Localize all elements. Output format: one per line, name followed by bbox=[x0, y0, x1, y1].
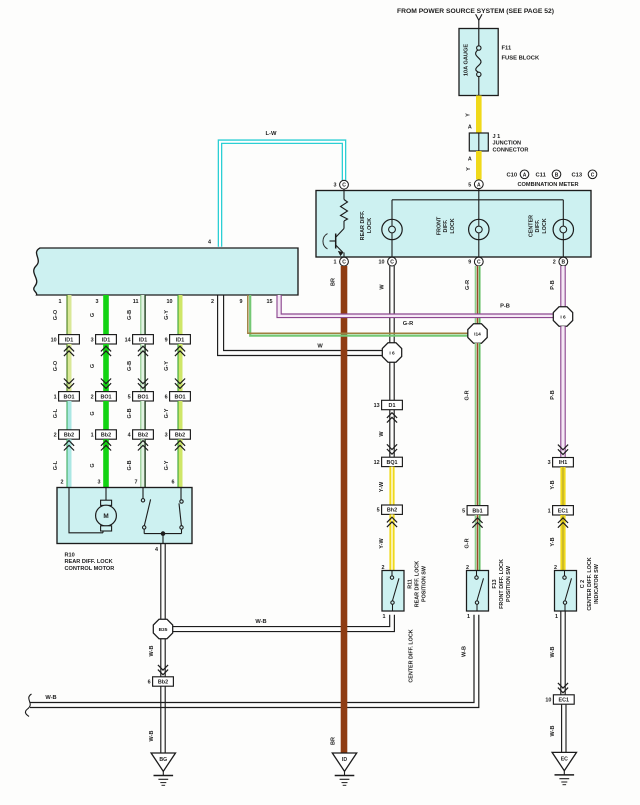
svg-text:1: 1 bbox=[91, 433, 94, 439]
connector D1 pin 13 bbox=[382, 400, 403, 409]
wire Y (J1 to combination meter pin 5) bbox=[476, 151, 482, 180]
svg-text:C: C bbox=[591, 172, 595, 178]
wire G (ID1 to BO1), column 2 bbox=[103, 344, 109, 392]
svg-text:A: A bbox=[468, 157, 472, 163]
splice B35 bbox=[153, 619, 172, 638]
connector arrows bbox=[558, 518, 568, 528]
svg-text:I 6: I 6 bbox=[560, 314, 566, 320]
connector arrows bbox=[138, 379, 148, 389]
svg-text:Bb2: Bb2 bbox=[158, 680, 168, 686]
wire G (big box pin to ID1), column 2 bbox=[103, 295, 109, 335]
svg-text:LOCK: LOCK bbox=[542, 218, 548, 233]
connector EC1 pin 1 bbox=[553, 506, 574, 515]
wire G-O (ID1 to BO1), column 1 bbox=[67, 344, 71, 392]
splice I6 (right) bbox=[553, 307, 572, 326]
svg-text:2: 2 bbox=[554, 565, 557, 571]
svg-text:3: 3 bbox=[98, 480, 101, 486]
connector BO1 pin 1 bbox=[59, 392, 80, 401]
svg-text:BQ1: BQ1 bbox=[386, 460, 397, 466]
svg-text:ID1: ID1 bbox=[139, 337, 147, 343]
svg-text:DIFF.: DIFF. bbox=[535, 219, 541, 232]
svg-text:11: 11 bbox=[133, 299, 139, 305]
svg-text:C: C bbox=[477, 260, 481, 266]
connector Bb2 pin 3 bbox=[170, 430, 191, 439]
connector arrows bbox=[175, 346, 185, 356]
big box (no-name control unit, broken left edge) bbox=[34, 248, 298, 295]
svg-text:ID1: ID1 bbox=[65, 337, 73, 343]
svg-text:Y: Y bbox=[466, 167, 472, 171]
svg-text:G-O: G-O bbox=[53, 360, 59, 371]
wire W-B (motor pin 4 to B35) bbox=[160, 544, 162, 620]
svg-text:ID1: ID1 bbox=[176, 337, 184, 343]
svg-text:POSITION SW: POSITION SW bbox=[506, 565, 512, 602]
F13 front diff lock position switch bbox=[467, 571, 489, 612]
C2 center diff lock indicator switch bbox=[555, 571, 577, 612]
connector arrows bbox=[158, 665, 168, 675]
svg-text:BR: BR bbox=[331, 737, 337, 745]
switch blade 1 bbox=[144, 499, 150, 525]
svg-text:1: 1 bbox=[383, 614, 386, 620]
svg-text:FROM POWER SOURCE SYSTEM (SEE: FROM POWER SOURCE SYSTEM (SEE PAGE 52) bbox=[397, 8, 554, 15]
svg-text:1: 1 bbox=[59, 299, 62, 305]
svg-text:1: 1 bbox=[555, 614, 558, 620]
svg-text:4: 4 bbox=[128, 433, 131, 439]
svg-text:Y-B: Y-B bbox=[550, 480, 556, 489]
svg-text:REAR DIFF. LOCK: REAR DIFF. LOCK bbox=[65, 559, 113, 565]
wire P-B (I6 to IH1) bbox=[561, 326, 564, 457]
svg-text:Bb2: Bb2 bbox=[175, 433, 185, 439]
svg-text:I 6: I 6 bbox=[389, 350, 395, 356]
splice I14 bbox=[468, 324, 487, 343]
connector arrows bbox=[387, 517, 397, 527]
svg-text:3: 3 bbox=[548, 460, 551, 466]
svg-text:CENTER DIFF. LOCK: CENTER DIFF. LOCK bbox=[587, 557, 593, 610]
connector BQ1 pin 12 bbox=[382, 457, 403, 466]
svg-text:EC1: EC1 bbox=[558, 508, 569, 514]
svg-text:INDICATOR SW: INDICATOR SW bbox=[594, 563, 600, 604]
svg-text:G-Y: G-Y bbox=[164, 361, 170, 371]
wire G-B (Bb2 to control motor), column 3 bbox=[141, 439, 145, 487]
svg-text:IH1: IH1 bbox=[559, 460, 567, 466]
wire G-Y (Bb2 to control motor), column 4 bbox=[178, 439, 182, 487]
svg-text:G-B: G-B bbox=[127, 310, 133, 320]
svg-text:5: 5 bbox=[377, 508, 380, 514]
svg-text:LOCK: LOCK bbox=[450, 218, 456, 233]
svg-text:ID1: ID1 bbox=[102, 337, 110, 343]
svg-text:C10: C10 bbox=[507, 173, 518, 179]
connector ID1 pin 10 bbox=[59, 335, 80, 344]
svg-text:G-O: G-O bbox=[53, 309, 59, 320]
internal wire to motor bbox=[69, 488, 103, 533]
transistor (inside meter) bbox=[343, 221, 345, 229]
svg-text:2: 2 bbox=[54, 433, 57, 439]
connector arrows bbox=[387, 444, 397, 454]
junction connector J1 box bbox=[469, 133, 488, 151]
switch blade 2 bbox=[179, 503, 181, 525]
wire W (D1 to BQ1) bbox=[389, 410, 391, 458]
wire BR (meter pin 1 to ground ID) bbox=[341, 266, 348, 753]
svg-text:R11: R11 bbox=[407, 579, 413, 589]
svg-text:ID: ID bbox=[342, 757, 347, 763]
svg-text:COMBINATION METER: COMBINATION METER bbox=[518, 182, 579, 188]
connector arrows bbox=[64, 441, 74, 451]
connector arrows bbox=[138, 441, 148, 451]
svg-text:D1: D1 bbox=[389, 403, 396, 409]
switch contact (pin 7) bbox=[142, 488, 144, 499]
svg-text:Bb2: Bb2 bbox=[64, 433, 74, 439]
svg-text:BO1: BO1 bbox=[137, 394, 148, 400]
svg-text:M: M bbox=[103, 513, 108, 520]
motor M bbox=[101, 500, 112, 505]
svg-text:CENTER DIFF. LOCK: CENTER DIFF. LOCK bbox=[409, 629, 415, 682]
svg-text:1: 1 bbox=[467, 614, 470, 620]
svg-text:2: 2 bbox=[91, 394, 94, 400]
connector Bb1 pin 5 bbox=[467, 506, 488, 515]
svg-text:P-B: P-B bbox=[550, 390, 556, 400]
connector arrows bbox=[558, 445, 568, 455]
svg-text:9: 9 bbox=[165, 337, 168, 343]
svg-text:3: 3 bbox=[91, 337, 94, 343]
svg-text:6: 6 bbox=[172, 480, 175, 486]
meter pin 10 circle C bbox=[388, 257, 397, 266]
svg-text:W-B: W-B bbox=[461, 646, 467, 657]
svg-text:Y-W: Y-W bbox=[379, 537, 385, 548]
svg-text:2: 2 bbox=[553, 260, 556, 266]
svg-text:B: B bbox=[555, 172, 559, 178]
svg-text:G: G bbox=[90, 463, 96, 467]
connector Bh2 pin 5 bbox=[382, 505, 403, 514]
svg-text:F11: F11 bbox=[502, 45, 512, 51]
svg-text:P-B: P-B bbox=[550, 280, 556, 290]
svg-text:6: 6 bbox=[165, 394, 168, 400]
svg-text:FRONT DIFF. LOCK: FRONT DIFF. LOCK bbox=[499, 559, 505, 609]
svg-text:W-B: W-B bbox=[149, 646, 155, 657]
svg-text:A: A bbox=[523, 172, 527, 178]
rear diff lock lamp bbox=[391, 200, 393, 220]
svg-text:BG: BG bbox=[159, 757, 167, 763]
connector Bb2 pin 4 bbox=[133, 430, 154, 439]
svg-text:10: 10 bbox=[379, 260, 385, 266]
wire Y-B (EC1 to C2 pin 2) bbox=[560, 515, 565, 571]
wire P-B (big box pin 15 to splice I6) bbox=[279, 295, 553, 316]
svg-text:W-B: W-B bbox=[149, 731, 155, 742]
svg-text:3: 3 bbox=[165, 433, 168, 439]
R11 rear diff lock position switch bbox=[382, 571, 404, 612]
svg-text:6: 6 bbox=[148, 680, 151, 686]
connector arrows bbox=[64, 346, 74, 356]
svg-text:G-Y: G-Y bbox=[164, 310, 170, 320]
svg-text:W-B: W-B bbox=[550, 726, 556, 737]
svg-text:W-B: W-B bbox=[550, 647, 556, 658]
connector EC1 pin 10 (ground run) bbox=[553, 695, 574, 704]
meter pin 1 circle C bbox=[340, 257, 349, 266]
svg-text:R10: R10 bbox=[65, 553, 75, 559]
svg-text:C: C bbox=[390, 260, 394, 266]
svg-text:15: 15 bbox=[267, 299, 273, 305]
connector arrows bbox=[138, 346, 148, 356]
svg-text:G-L: G-L bbox=[53, 460, 59, 470]
combination meter box bbox=[316, 191, 591, 258]
svg-text:J 1: J 1 bbox=[493, 134, 501, 140]
svg-text:I14: I14 bbox=[474, 331, 481, 337]
wire stub into fuse block bbox=[478, 20, 480, 28]
svg-text:JUNCTION: JUNCTION bbox=[493, 141, 522, 147]
svg-text:REAR DIFF. LOCK: REAR DIFF. LOCK bbox=[414, 561, 420, 608]
ground BG bbox=[151, 753, 175, 771]
connector arrows bbox=[558, 683, 568, 693]
connector arrows bbox=[101, 441, 111, 451]
connector ID1 pin 14 bbox=[133, 335, 154, 344]
wire L-W (meter pin 3 to big-box pin 4) bbox=[220, 142, 344, 247]
svg-text:G-Y: G-Y bbox=[164, 460, 170, 470]
svg-text:1: 1 bbox=[548, 508, 551, 514]
wire W-B (C2 pin 1 to EC1) bbox=[560, 612, 562, 695]
svg-text:C11: C11 bbox=[536, 173, 547, 179]
meter pin 3 circle C bbox=[340, 180, 349, 189]
svg-text:G: G bbox=[90, 313, 96, 317]
connector arrows bbox=[64, 379, 74, 389]
svg-text:Bb2: Bb2 bbox=[101, 433, 111, 439]
connector Bb2 pin 2 bbox=[59, 430, 80, 439]
svg-text:9: 9 bbox=[240, 299, 243, 305]
svg-text:CONNECTOR: CONNECTOR bbox=[493, 147, 529, 153]
svg-text:12: 12 bbox=[374, 460, 380, 466]
svg-text:EC: EC bbox=[561, 757, 568, 763]
svg-text:14: 14 bbox=[125, 337, 131, 343]
svg-text:1: 1 bbox=[334, 260, 337, 266]
R10 rear diff lock control motor box bbox=[57, 488, 192, 544]
lamp bus (inside meter) bbox=[392, 199, 563, 201]
svg-text:G-R: G-R bbox=[403, 321, 413, 327]
svg-text:DIFF.: DIFF. bbox=[443, 219, 449, 232]
svg-text:A: A bbox=[477, 182, 481, 188]
wire G-B (big box pin to ID1), column 3 bbox=[141, 295, 145, 335]
svg-text:Bb2: Bb2 bbox=[138, 433, 148, 439]
wire Y-B (IH1 to EC1) bbox=[560, 467, 565, 506]
connector arrows bbox=[101, 379, 111, 389]
svg-text:W: W bbox=[379, 284, 385, 290]
connector arrows bbox=[175, 379, 185, 389]
svg-text:A: A bbox=[468, 125, 472, 131]
wire G-O (big box pin to ID1), column 1 bbox=[67, 295, 71, 335]
svg-text:W: W bbox=[379, 431, 385, 437]
wire G-B (BO1 to Bb2), column 3 bbox=[141, 401, 145, 430]
svg-text:2: 2 bbox=[466, 565, 469, 571]
svg-text:W: W bbox=[317, 343, 323, 349]
svg-text:POSITION SW: POSITION SW bbox=[421, 565, 427, 602]
connector BO1 pin 6 bbox=[170, 392, 191, 401]
wire W (meter pin 10 to splice I6) bbox=[389, 266, 391, 343]
svg-text:G-R: G-R bbox=[465, 390, 471, 400]
svg-text:W-B: W-B bbox=[255, 619, 266, 625]
wire W (big box pin 2 to splice I6) bbox=[218, 295, 383, 356]
svg-text:G-B: G-B bbox=[127, 460, 133, 470]
connector IH1 pin 3 bbox=[553, 458, 574, 467]
svg-text:BR: BR bbox=[331, 278, 337, 286]
center diff lock lamp bbox=[562, 200, 564, 220]
ground EC bbox=[552, 752, 576, 770]
svg-text:BO1: BO1 bbox=[100, 394, 111, 400]
connector BO1 pin 5 bbox=[133, 392, 154, 401]
wire G-L (BO1 to Bb2), column 1 bbox=[67, 401, 71, 430]
svg-text:3: 3 bbox=[96, 299, 99, 305]
svg-text:G-B: G-B bbox=[127, 361, 133, 371]
svg-text:2: 2 bbox=[382, 565, 385, 571]
svg-text:BO1: BO1 bbox=[174, 394, 185, 400]
resistor (inside meter) bbox=[343, 189, 345, 199]
wire G-Y (ID1 to BO1), column 4 bbox=[178, 344, 182, 392]
svg-text:C: C bbox=[342, 183, 346, 189]
svg-text:C 2: C 2 bbox=[580, 580, 586, 588]
connector Bb2 pin 6 (ground run) bbox=[153, 677, 174, 686]
connector arrows bbox=[101, 346, 111, 356]
svg-text:C: C bbox=[342, 260, 346, 266]
svg-text:LOCK: LOCK bbox=[367, 218, 373, 233]
connector arrows bbox=[387, 413, 397, 423]
wire W-B (EC1 to ground EC) bbox=[561, 705, 563, 753]
svg-text:5: 5 bbox=[468, 182, 471, 188]
svg-text:EC1: EC1 bbox=[559, 698, 570, 704]
svg-text:G: G bbox=[90, 364, 96, 368]
svg-text:G-Y: G-Y bbox=[164, 408, 170, 418]
front diff lock lamp bbox=[469, 219, 489, 239]
svg-text:1: 1 bbox=[54, 394, 57, 400]
svg-text:7: 7 bbox=[135, 480, 138, 486]
svg-text:Y-B: Y-B bbox=[550, 537, 556, 546]
long wire W-B (left break to F13 pin 1) bbox=[30, 615, 474, 703]
internal bus to pin 4 bbox=[144, 533, 181, 535]
svg-text:9: 9 bbox=[468, 260, 471, 266]
wire G-Y (BO1 to Bb2), column 4 bbox=[178, 401, 182, 430]
wire break symbol bbox=[25, 694, 31, 717]
svg-text:Y-W: Y-W bbox=[379, 481, 385, 492]
connector arrows bbox=[472, 518, 482, 528]
svg-text:10: 10 bbox=[167, 299, 173, 305]
svg-text:G: G bbox=[90, 411, 96, 415]
arrow from power source bbox=[476, 14, 482, 20]
svg-text:4: 4 bbox=[208, 239, 211, 245]
wire Y-W (Bh2 to R11 pin 2) bbox=[389, 514, 394, 570]
svg-text:FRONT: FRONT bbox=[437, 216, 443, 235]
svg-text:REAR DIFF.: REAR DIFF. bbox=[360, 210, 366, 240]
wire G-Y (big box pin to ID1), column 4 bbox=[178, 295, 182, 335]
svg-text:FUSE BLOCK: FUSE BLOCK bbox=[502, 55, 540, 61]
wire G-L (Bb2 to control motor), column 1 bbox=[67, 439, 71, 487]
connector ID1 pin 9 bbox=[170, 335, 191, 344]
wire G-R (big box pin 9 to splice I14) bbox=[250, 295, 468, 336]
svg-text:Y: Y bbox=[466, 113, 472, 117]
wire P-B (meter pin 2 to splice I6) bbox=[561, 266, 564, 307]
svg-text:G-R: G-R bbox=[465, 538, 471, 548]
meter pin 5 circle A bbox=[474, 180, 483, 189]
connector BO1 pin 2 bbox=[96, 392, 117, 401]
splice I6 bbox=[382, 343, 401, 362]
wire G-R (Bb1 to F13 pin 2) bbox=[475, 515, 480, 571]
meter pin 2 circle B bbox=[559, 257, 568, 266]
svg-text:CONTROL MOTOR: CONTROL MOTOR bbox=[65, 566, 115, 572]
wire G (Bb2 to control motor), column 2 bbox=[103, 439, 109, 487]
svg-text:10: 10 bbox=[51, 337, 57, 343]
svg-text:W-B: W-B bbox=[45, 695, 56, 701]
meter pin 9 circle C bbox=[474, 257, 483, 266]
svg-text:F13: F13 bbox=[492, 579, 498, 588]
ground ID bbox=[332, 753, 356, 771]
fuse block F11 box bbox=[459, 29, 498, 96]
svg-text:G-B: G-B bbox=[127, 408, 133, 418]
svg-text:10: 10 bbox=[545, 698, 551, 704]
connector ID1 pin 3 bbox=[96, 335, 117, 344]
wire G-R (I14 to Bb1) bbox=[475, 343, 480, 506]
svg-text:G-R: G-R bbox=[465, 280, 471, 290]
svg-text:13: 13 bbox=[374, 403, 380, 409]
wire W-B (B35 to R11 pin 1) bbox=[173, 615, 390, 627]
wire Y-W (BQ1 to Bh2) bbox=[389, 467, 394, 505]
svg-text:10A GAUGE: 10A GAUGE bbox=[464, 44, 470, 76]
svg-text:G-L: G-L bbox=[53, 408, 59, 418]
svg-text:4: 4 bbox=[155, 547, 158, 553]
svg-text:2: 2 bbox=[61, 480, 64, 486]
svg-text:C13: C13 bbox=[572, 173, 583, 179]
svg-text:Bh2: Bh2 bbox=[387, 508, 397, 514]
svg-text:B35: B35 bbox=[159, 627, 168, 633]
svg-text:3: 3 bbox=[334, 183, 337, 189]
svg-text:B: B bbox=[561, 260, 565, 266]
wire W-B (B35 down to ground BG) bbox=[160, 639, 162, 753]
svg-text:CENTER: CENTER bbox=[529, 215, 535, 237]
wire G-B (ID1 to BO1), column 3 bbox=[141, 344, 145, 392]
svg-text:2: 2 bbox=[211, 299, 214, 305]
svg-text:Bb1: Bb1 bbox=[472, 508, 482, 514]
wire W (I6 to D1) bbox=[389, 362, 391, 400]
fuse element (10A GAUGE) bbox=[478, 29, 480, 46]
wire G (BO1 to Bb2), column 2 bbox=[103, 401, 109, 430]
svg-text:5: 5 bbox=[462, 508, 465, 514]
svg-text:5: 5 bbox=[128, 394, 131, 400]
svg-text:P-B: P-B bbox=[500, 303, 510, 309]
svg-text:BO1: BO1 bbox=[63, 394, 74, 400]
switch contact (pin 6) bbox=[180, 488, 182, 500]
connector Bb2 pin 1 bbox=[96, 430, 117, 439]
svg-text:L-W: L-W bbox=[266, 131, 277, 137]
wire Y (fuse to junction connector J1) bbox=[476, 96, 482, 134]
wire G-R (meter pin 9 to splice I14) bbox=[475, 266, 480, 324]
connector arrows bbox=[175, 441, 185, 451]
